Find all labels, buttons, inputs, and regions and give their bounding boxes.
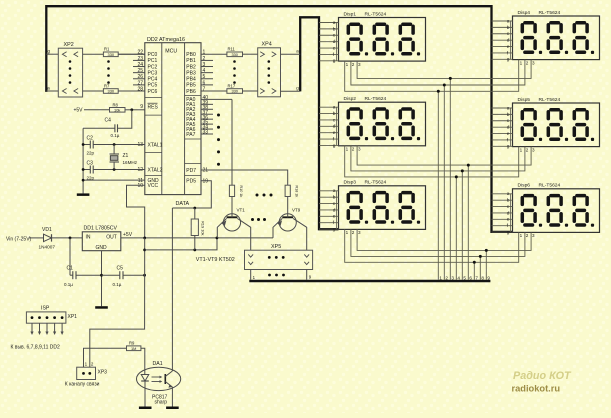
node Z1 bottom [113, 168, 116, 171]
svg-text:a: a [507, 19, 510, 24]
resistor R10 [229, 185, 234, 196]
node RES junction [130, 108, 133, 111]
svg-text:3: 3 [532, 60, 535, 65]
svg-text:C3: C3 [87, 161, 94, 167]
svg-text:PB6: PB6 [186, 89, 196, 95]
svg-text:XP5: XP5 [271, 244, 281, 250]
wire XP4 to bus (a) [281, 53, 301, 55]
svg-text:radiokot.ru: radiokot.ru [512, 384, 561, 394]
svg-text:VT1-VT9 KT502: VT1-VT9 KT502 [196, 257, 235, 263]
svg-text:R7: R7 [104, 83, 110, 88]
svg-text:a: a [507, 106, 510, 111]
svg-text:IN: IN [86, 235, 91, 241]
svg-text:a: a [333, 21, 336, 26]
svg-text:VCC: VCC [148, 183, 159, 189]
svg-text:d: d [333, 207, 336, 213]
node Z1 top [113, 143, 116, 146]
svg-text:b: b [507, 198, 510, 204]
node gnd stem - cap row [100, 274, 103, 277]
svg-text:b: b [507, 25, 510, 31]
svg-text:R10 1k: R10 1k [239, 186, 243, 198]
svg-text:e: e [507, 45, 510, 50]
capacitor C4 0.1u [117, 124, 119, 132]
svg-text:R18 1k: R18 1k [295, 186, 299, 198]
svg-text:0.1µ: 0.1µ [111, 133, 120, 138]
svg-text:PD7: PD7 [186, 168, 196, 174]
Disp3 segment pins a-g [319, 189, 361, 235]
wire C1 to DD1 gnd stem [70, 274, 73, 276]
svg-text:Disp1: Disp1 [344, 11, 357, 17]
svg-text:PB5: PB5 [186, 83, 196, 89]
svg-text:К выв. 6,7,8,9,11 DD2: К выв. 6,7,8,9,11 DD2 [11, 344, 60, 350]
display Disp2 RL-T5624 (3-digit 7-segment) [339, 96, 426, 146]
transistor VT1 KT502 [223, 214, 240, 231]
svg-text:330: 330 [108, 89, 115, 94]
Disp4 segment pins a-g [492, 19, 536, 65]
svg-text:PA7: PA7 [186, 132, 195, 138]
wire digit line 6 (display pin to bus) [357, 146, 531, 280]
svg-text:R17: R17 [228, 83, 236, 88]
svg-text:VT1: VT1 [237, 208, 246, 213]
svg-text:4: 4 [457, 275, 460, 280]
svg-text:Disp5: Disp5 [518, 97, 531, 103]
wire digit line 4 (display pin to bus) [345, 146, 519, 280]
wire +5V to R8 [84, 109, 110, 111]
svg-text:3: 3 [358, 230, 361, 235]
svg-text:12: 12 [137, 167, 143, 173]
ground symbol (DD1) [95, 306, 108, 309]
svg-text:1N4007: 1N4007 [39, 244, 56, 249]
svg-text:PD5: PD5 [186, 179, 196, 185]
wire +5V rail down to XP3 pin2 [90, 238, 145, 367]
svg-text:1: 1 [439, 275, 442, 280]
wire digit line 9 (display pin to bus) [357, 229, 531, 280]
svg-text:XP1: XP1 [68, 314, 78, 320]
svg-text:Disp6: Disp6 [518, 183, 531, 189]
svg-text:RL-T5624: RL-T5624 [539, 97, 561, 103]
svg-text:e: e [333, 46, 336, 51]
svg-text:XP2: XP2 [64, 42, 74, 48]
resistor R1 330 [103, 52, 118, 57]
svg-text:g: g [507, 58, 510, 63]
svg-text:0.1µ: 0.1µ [113, 282, 122, 287]
display Disp3 RL-T5624 (3-digit 7-segment) [339, 180, 426, 230]
ground symbol (phototransistor) [166, 407, 179, 410]
svg-text:C5: C5 [117, 265, 124, 271]
svg-text:2: 2 [352, 230, 355, 235]
svg-text:PC1: PC1 [148, 58, 158, 64]
svg-text:g: g [333, 59, 336, 64]
continuation dots VT2..VT8 [251, 218, 266, 221]
svg-text:7: 7 [475, 275, 478, 280]
svg-text:3: 3 [358, 147, 361, 152]
ground symbol (crystal rail) [77, 193, 90, 196]
wire digit line 2 (display pin to bus) [351, 60, 525, 281]
svg-text:VD1: VD1 [42, 227, 52, 233]
wire C5 row [102, 274, 120, 276]
svg-text:DA1: DA1 [153, 361, 163, 367]
wire segment-bus from XP2 up and across top to right display column [46, 6, 512, 232]
node R19 bottom [193, 249, 196, 252]
capacitor C1 0.1u [72, 271, 74, 279]
ic DD2 pins PA0-PA7 (40-33) [186, 95, 232, 138]
connector XP1 (ISP) [26, 312, 66, 323]
wire R8 to DD2 RES [125, 109, 132, 111]
node emitter rail junction [216, 237, 219, 240]
svg-text:g: g [333, 227, 336, 232]
svg-text:Disp4: Disp4 [518, 10, 531, 16]
node C1 top junction [69, 237, 72, 240]
continuation dots R11..R17 bases [256, 194, 273, 197]
node C5 - +5V rail [143, 274, 146, 277]
svg-text:a: a [333, 189, 336, 194]
svg-text:ISP: ISP [41, 306, 50, 312]
svg-text:3: 3 [532, 147, 535, 152]
svg-text:XTAL1: XTAL1 [148, 142, 163, 148]
led DA1 anode-cathode [141, 375, 149, 382]
optocoupler DA1 PC817 body [137, 367, 181, 390]
wire DATA to phototransistor collector [171, 208, 173, 371]
svg-text:Радио КОТ: Радио КОТ [513, 370, 572, 382]
wires XP1 pins down-arrows [30, 323, 63, 335]
connector XP4 [258, 48, 281, 97]
svg-text:0.1µ: 0.1µ [64, 282, 73, 287]
svg-text:b: b [333, 26, 336, 32]
capacitor C2 22p [89, 141, 91, 149]
svg-text:330: 330 [108, 52, 115, 57]
wire C4 to ground rail [83, 127, 115, 129]
svg-text:PC0: PC0 [148, 52, 158, 58]
svg-text:10: 10 [137, 183, 143, 189]
svg-text:d: d [507, 210, 510, 216]
svg-text:1: 1 [346, 230, 349, 235]
svg-text:g: g [507, 230, 510, 235]
svg-text:d: d [507, 125, 510, 131]
wire PD5 to DATA node [172, 181, 211, 208]
wire XP5 pin9 to bus [306, 270, 308, 280]
svg-text:RL-T5624: RL-T5624 [539, 183, 561, 189]
svg-text:8: 8 [481, 275, 484, 280]
svg-text:MCU: MCU [165, 49, 177, 55]
wire VT1 emitter [217, 218, 226, 238]
svg-text:RES: RES [148, 104, 159, 110]
svg-text:9: 9 [140, 104, 143, 110]
ic DD2 pins PB0-PB6 (1-7) [186, 50, 227, 95]
wire XP2 to R7 [83, 90, 104, 92]
regulator DD1 L7805CV [82, 232, 121, 251]
ic DD2 pins PC0-PC6 (22-28) [118, 50, 157, 95]
svg-text:e: e [507, 132, 510, 137]
Disp2 segment pins a-g [319, 106, 361, 152]
svg-text:PC3: PC3 [148, 70, 158, 76]
wire VD1 to DD1 [52, 237, 83, 239]
wire XP4 to bus (g) [281, 90, 301, 92]
svg-text:2: 2 [445, 275, 448, 280]
wire VT9 emitter [273, 218, 282, 238]
svg-text:22p: 22p [87, 151, 95, 156]
wire VT1 collector [237, 218, 250, 250]
resistor R17 330 [227, 89, 243, 94]
svg-text:C1: C1 [67, 265, 74, 271]
svg-text:2: 2 [526, 147, 529, 152]
wire XP2 to bus (g) [46, 53, 58, 55]
connector XP5 [245, 250, 313, 269]
svg-text:1: 1 [520, 147, 523, 152]
svg-text:RL-T5624: RL-T5624 [365, 11, 387, 17]
svg-text:PC2: PC2 [148, 64, 158, 70]
ground symbol (LED) [139, 407, 152, 410]
svg-text:XTAL2: XTAL2 [148, 167, 163, 173]
svg-text:DD2 ATmega16: DD2 ATmega16 [147, 37, 185, 43]
svg-text:XP4: XP4 [262, 42, 272, 48]
wire DD1 GND stem [101, 251, 103, 307]
svg-text:Disp3: Disp3 [344, 180, 357, 186]
wire PD7 to R18 [201, 170, 288, 185]
svg-text:e: e [507, 218, 510, 223]
svg-text:PB2: PB2 [186, 64, 196, 70]
svg-text:b: b [333, 111, 336, 117]
transistor VT9 KT502 [279, 214, 296, 231]
svg-text:a: a [507, 192, 510, 197]
svg-text:Disp2: Disp2 [344, 96, 357, 102]
node C3-rail [82, 168, 85, 171]
node DATA junction [193, 207, 196, 210]
svg-text:2: 2 [526, 60, 529, 65]
svg-text:g: g [333, 144, 336, 149]
node GND-rail [82, 179, 85, 182]
wire XP3 pin1 to R9 [84, 348, 127, 367]
svg-text:1: 1 [520, 60, 523, 65]
svg-text:b: b [507, 112, 510, 118]
capacitor C3 22p [89, 166, 91, 174]
display Disp4 RL-T5624 (3-digit 7-segment) [513, 10, 600, 60]
resistor R7 330 [103, 89, 118, 94]
continuation dots R12-R16 [233, 60, 236, 84]
svg-text:PB1: PB1 [186, 58, 196, 64]
wire digit line 7 (display pin to bus) [345, 229, 519, 280]
node C2-rail [82, 143, 85, 146]
display Disp6 RL-T5624 (3-digit 7-segment) [513, 183, 600, 233]
ic DD2 ATmega16 body [145, 43, 201, 195]
wire XP5 pin1 to bus [250, 270, 252, 280]
wire C3 row to XTAL2 [83, 169, 90, 171]
svg-text:Vin (7-25V): Vin (7-25V) [6, 236, 32, 242]
svg-text:R9: R9 [129, 341, 135, 346]
connector XP2 [58, 48, 82, 97]
connector XP3 [77, 367, 96, 379]
svg-text:6: 6 [469, 275, 472, 280]
ic DD2 pins XTAL1(13) XTAL2(12) GND(11) VCC(10) [137, 142, 162, 189]
wire R9 to DA1 LED [141, 348, 145, 374]
svg-text:OUT: OUT [106, 235, 117, 241]
svg-text:g: g [507, 145, 510, 150]
svg-text:2: 2 [352, 147, 355, 152]
wire Vin to VD1 [29, 237, 44, 239]
wire RES node down to C4 [118, 110, 132, 129]
svg-text:PC4: PC4 [148, 77, 158, 83]
svg-text:33: 33 [203, 130, 209, 136]
wire digit line 5 (display pin to bus) [351, 146, 525, 280]
svg-text:9: 9 [487, 275, 490, 280]
resistor R19 10k [194, 208, 196, 219]
wire digit line 3 (display pin to bus) [357, 60, 531, 281]
Disp1 segment pins a-g [319, 21, 361, 67]
svg-text:R19 10k: R19 10k [201, 221, 206, 236]
wire VT9 base to R18 [287, 197, 289, 218]
svg-text:К каналу связи: К каналу связи [65, 382, 100, 388]
phototransistor DA1 [164, 374, 166, 384]
wire phototransistor emitter to ground [171, 387, 173, 407]
resistor R11 330 [227, 52, 243, 57]
wire digit line 8 (display pin to bus) [351, 229, 525, 280]
continuation dots R2-R6 [107, 60, 110, 84]
display Disp1 RL-T5624 (3-digit 7-segment) [339, 11, 426, 61]
node rail-R19 feed [143, 249, 146, 252]
svg-text:+5V: +5V [123, 232, 133, 238]
wire segment-bus from XP4 across to left display column [300, 17, 338, 229]
Disp6 segment pins a-g [492, 192, 536, 238]
display Disp5 RL-T5624 (3-digit 7-segment) [513, 97, 600, 147]
svg-text:2: 2 [352, 62, 355, 67]
svg-text:VT9: VT9 [292, 208, 301, 213]
svg-text:d: d [333, 124, 336, 130]
wire digit line 1 (display pin to bus) [345, 60, 519, 281]
svg-text:3: 3 [451, 275, 454, 280]
svg-text:b: b [333, 195, 336, 201]
svg-text:GND: GND [96, 245, 108, 251]
resistor R9 1M [127, 346, 141, 351]
svg-text:DD1 L7805CV: DD1 L7805CV [84, 226, 118, 232]
wire digit-select bus at bottom (XP5 to drop lines) [249, 280, 490, 282]
wire ground rail (crystal area) [82, 128, 84, 193]
svg-text:10k: 10k [114, 107, 120, 112]
wire R17 to XP4 [243, 90, 258, 92]
wire PA0 to R10 [231, 99, 233, 185]
svg-text:RL-T5624: RL-T5624 [539, 10, 561, 16]
svg-text:a: a [333, 106, 336, 111]
ic DD2 pin RES (9) [132, 103, 159, 110]
light arrows [152, 376, 160, 378]
wire DD2 GND pin to rail [83, 179, 145, 181]
svg-text:PB3: PB3 [186, 70, 196, 76]
svg-text:3: 3 [358, 62, 361, 67]
continuation dots XP5 pins 2-8 [268, 274, 285, 277]
svg-text:330: 330 [231, 52, 238, 57]
continuation dots for PA1-PA7 base wires [217, 114, 220, 166]
wire +5V to R19/emitters [145, 238, 217, 250]
wire R11 to XP4 [243, 53, 258, 55]
wire DD1 OUT +5V rail / emitter rail [121, 237, 273, 239]
svg-text:C2: C2 [87, 136, 94, 142]
svg-text:e: e [333, 131, 336, 136]
svg-text:1: 1 [346, 62, 349, 67]
wire C2 row to XTAL1 [83, 144, 90, 146]
svg-text:R11: R11 [228, 47, 236, 52]
ic DD2 pins PD7(21) PD5(19) [186, 168, 208, 185]
svg-text:DATA: DATA [176, 201, 190, 207]
wire C1 branch [69, 238, 71, 275]
svg-text:19: 19 [203, 178, 209, 184]
wire XP2 to R1 [83, 53, 104, 55]
svg-text:RL-T5624: RL-T5624 [365, 180, 387, 186]
svg-text:21: 21 [203, 168, 209, 174]
svg-text:PC5: PC5 [148, 83, 158, 89]
svg-text:C4: C4 [105, 118, 112, 124]
svg-text:+5V: +5V [73, 107, 83, 113]
svg-text:2: 2 [526, 233, 529, 238]
svg-text:3: 3 [532, 233, 535, 238]
svg-text:1M: 1M [131, 346, 136, 351]
resistor R18 [285, 185, 290, 196]
svg-text:1: 1 [346, 147, 349, 152]
node +5V rail top [143, 237, 146, 240]
svg-text:PB0: PB0 [186, 52, 196, 58]
wire VT1 base to R10 [231, 197, 233, 218]
svg-text:XP3: XP3 [98, 370, 108, 376]
Disp5 segment pins a-g [492, 106, 536, 152]
wire DD2 VCC pin to +5V rail [127, 185, 145, 238]
svg-text:1: 1 [520, 233, 523, 238]
svg-text:PB4: PB4 [186, 77, 196, 83]
wire VT9 collector [293, 218, 307, 250]
diode VD1 1N4007 [44, 234, 52, 241]
wire R7 to DD2 PC6 [118, 90, 145, 92]
svg-text:d: d [507, 38, 510, 44]
resistor R8 10k [110, 108, 126, 113]
svg-text:5: 5 [463, 275, 466, 280]
wire R1 to DD2 PC0 [118, 53, 145, 55]
svg-text:e: e [333, 215, 336, 220]
svg-text:d: d [333, 39, 336, 45]
crystal Z1 16MHz [113, 145, 115, 155]
svg-text:PC6: PC6 [148, 89, 158, 95]
wire XP2 to bus (a) [46, 90, 58, 92]
svg-text:330: 330 [231, 89, 238, 94]
svg-text:16MHz: 16MHz [123, 160, 138, 165]
svg-text:Z1: Z1 [123, 153, 129, 159]
svg-text:R1: R1 [104, 47, 110, 52]
svg-text:sharp: sharp [155, 400, 168, 406]
svg-text:RL-T5624: RL-T5624 [365, 96, 387, 102]
svg-text:13: 13 [137, 142, 143, 148]
capacitor C5 0.1u [119, 271, 121, 279]
